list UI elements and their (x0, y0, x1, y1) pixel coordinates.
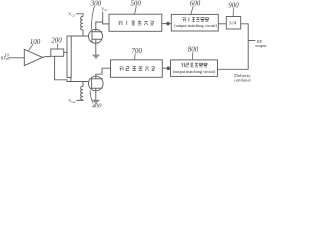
svg-text:VD: VD (101, 7, 107, 13)
svg-text:500: 500 (130, 0, 141, 8)
svg-text:600: 600 (190, 0, 201, 8)
svg-text:RFIN: RFIN (1, 55, 10, 61)
svg-text:200: 200 (51, 37, 62, 45)
svg-text:VG1: VG1 (68, 12, 75, 18)
svg-text:(output matching circuit): (output matching circuit) (173, 70, 216, 74)
svg-text:400: 400 (92, 103, 102, 110)
svg-text:λ/4: λ/4 (229, 21, 236, 27)
svg-text:700: 700 (131, 47, 142, 55)
svg-text:900: 900 (228, 2, 239, 10)
svg-text:output: output (255, 43, 267, 48)
svg-text:combiner: combiner (234, 77, 252, 82)
svg-text:300: 300 (90, 0, 102, 8)
svg-text:VG2: VG2 (68, 98, 75, 104)
svg-text:800: 800 (188, 46, 199, 54)
svg-text:100: 100 (30, 38, 41, 46)
svg-text:(output matching circuit): (output matching circuit) (174, 24, 217, 28)
